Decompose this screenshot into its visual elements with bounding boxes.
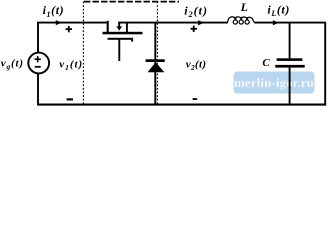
current arrow i1 (56, 20, 62, 25)
wire: top rail from inductor to top-right corner (254, 22, 325, 24)
svg-text:i1(t): i1(t) (43, 3, 65, 19)
wire: capacitor branch upper lead (289, 23, 291, 59)
capacitor C (275, 58, 304, 67)
diode D1 (146, 23, 165, 105)
wire: right output branch down (324, 22, 326, 105)
current arrow i2 (198, 20, 204, 25)
minus sign of v1 port (67, 98, 73, 100)
switch network dashed box, right edge (156, 2, 158, 105)
watermark merlin-igor.ru (234, 72, 315, 94)
svg-text:iL(t): iL(t) (267, 2, 290, 18)
plus sign of v2 port (191, 26, 197, 32)
svg-text:vg(t): vg(t) (1, 58, 24, 72)
svg-text:C: C (262, 57, 270, 69)
transistor Q1 (power MOSFET) (103, 21, 143, 61)
minus sign of v2 port (193, 98, 198, 100)
wire: source Vg negative lead down (37, 73, 39, 104)
inductor L (227, 17, 254, 24)
current arrow iL (273, 20, 279, 25)
wire: capacitor branch lower lead (289, 68, 291, 105)
svg-text:L: L (240, 0, 248, 14)
svg-text:i2(t): i2(t) (184, 4, 208, 20)
wire: bottom return rail (37, 104, 326, 106)
switch network dashed box, top edge (84, 1, 179, 3)
svg-text:v2(t): v2(t) (186, 58, 207, 72)
wire: top rail from Q1 source to inductor (118, 22, 227, 24)
switch network dashed box, left edge (82, 2, 84, 105)
svg-text:merlin-igor.ru: merlin-igor.ru (234, 75, 314, 90)
voltage source Vg (28, 53, 49, 74)
svg-text:v1(t): v1(t) (59, 58, 83, 72)
wire: source Vg positive lead up and top rail to Q1 drain (38, 23, 109, 53)
plus sign of v1 port (66, 26, 72, 32)
